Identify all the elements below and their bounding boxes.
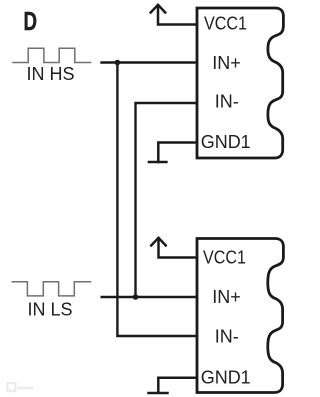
watermark [8,383,34,393]
svg-text:D: D [24,6,38,36]
svg-text:VCC1: VCC1 [204,14,247,34]
IC block U2 outline [197,239,283,393]
IC block U1 outline [197,8,283,158]
svg-text:IN HS: IN HS [26,64,74,84]
svg-text:IN-: IN- [215,92,239,112]
svg-text:GND1: GND1 [201,132,251,152]
wire net HS vertical to U2 IN- [117,63,197,337]
svg-text:GND1: GND1 [201,367,251,387]
waveform symbol IN HS [13,48,91,62]
ground GND1 (bottom) [149,378,198,393]
svg-text:VCC1: VCC1 [203,248,246,268]
svg-text:IN+: IN+ [212,53,241,73]
node junction LS [133,294,139,300]
wire U1 IN- horizontal and vertical to U2 IN+ [136,103,198,297]
wire IN HS to U1 IN+ [102,61,198,63]
wire IN LS to U2 IN+ [102,296,197,298]
svg-text:IN-: IN- [215,327,239,347]
svg-text:IN LS: IN LS [27,299,72,319]
svg-text:IN+: IN+ [212,287,241,307]
svg-text:▪▪▪▪▪: ▪▪▪▪▪ [18,383,34,393]
node junction HS [115,60,121,66]
waveform symbol IN LS [12,282,90,296]
power arrow VCC1 (top) [151,5,197,25]
ground GND1 (top) [149,143,197,163]
power arrow VCC1 (bottom) [151,238,197,258]
